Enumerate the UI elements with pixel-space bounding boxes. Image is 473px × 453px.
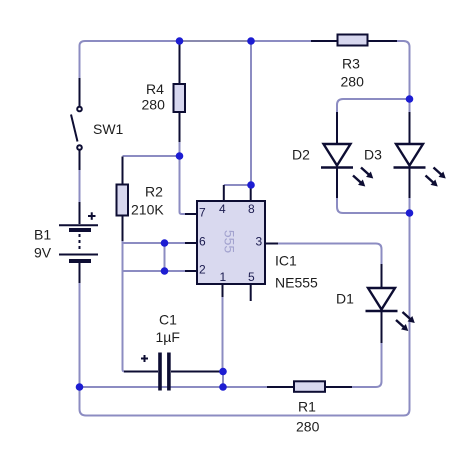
svg-text:555: 555 bbox=[222, 230, 238, 254]
svg-text:D2: D2 bbox=[292, 147, 310, 163]
svg-text:7: 7 bbox=[199, 206, 206, 220]
svg-text:6: 6 bbox=[199, 235, 206, 249]
svg-text:210K: 210K bbox=[131, 202, 164, 218]
svg-text:R3: R3 bbox=[342, 56, 360, 72]
svg-text:4: 4 bbox=[219, 202, 226, 216]
svg-text:B1: B1 bbox=[34, 227, 51, 243]
svg-text:280: 280 bbox=[142, 97, 166, 113]
svg-text:9V: 9V bbox=[34, 245, 52, 261]
svg-text:D3: D3 bbox=[364, 147, 382, 163]
svg-text:280: 280 bbox=[296, 419, 320, 435]
svg-text:280: 280 bbox=[341, 74, 365, 90]
svg-text:8: 8 bbox=[248, 202, 255, 216]
svg-text:SW1: SW1 bbox=[93, 121, 124, 137]
svg-text:R4: R4 bbox=[146, 81, 164, 97]
svg-text:5: 5 bbox=[248, 270, 255, 284]
svg-text:2: 2 bbox=[199, 263, 206, 277]
svg-text:D1: D1 bbox=[336, 291, 354, 307]
svg-text:R1: R1 bbox=[298, 399, 316, 415]
svg-text:NE555: NE555 bbox=[275, 275, 318, 291]
svg-text:3: 3 bbox=[256, 235, 263, 249]
svg-text:1µF: 1µF bbox=[156, 329, 180, 345]
svg-text:1: 1 bbox=[220, 270, 227, 284]
svg-text:R2: R2 bbox=[145, 184, 163, 200]
svg-text:C1: C1 bbox=[159, 312, 177, 328]
svg-text:IC1: IC1 bbox=[275, 253, 297, 269]
